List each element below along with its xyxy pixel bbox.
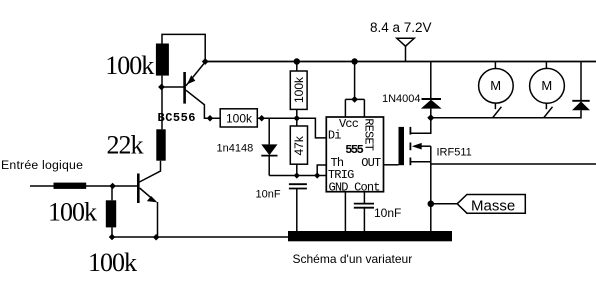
node: emitter/ground junction [153, 234, 160, 241]
wire: bracket stem to bus [354, 62, 356, 100]
wire: motor bottom rail [431, 110, 581, 118]
resistor R7 100k vertical box [296, 62, 298, 72]
capacitor C1 10nF [289, 183, 307, 185]
wire: source line to right edge [431, 163, 596, 165]
svg-text:M: M [490, 78, 501, 93]
svg-text:Di: Di [328, 129, 341, 143]
node: Masse junction [428, 201, 435, 208]
svg-text:IRF511: IRF511 [437, 147, 472, 159]
svg-text:47k: 47k [292, 135, 306, 155]
svg-text:Schéma d'un variateur: Schéma d'un variateur [293, 252, 413, 266]
wire: to Masse flag [431, 203, 457, 205]
ground bus bar [288, 231, 452, 241]
wire: R1 top loop to emitter node [162, 34, 205, 61]
diode D3 (right flyback) [580, 62, 582, 101]
svg-text:BC556: BC556 [158, 111, 197, 125]
Q3 drain stub [410, 118, 430, 133]
connector slash M2 [544, 107, 553, 118]
svg-text:OUT: OUT [361, 156, 381, 170]
svg-text:100k: 100k [292, 76, 306, 103]
wire: TRIG node row [269, 175, 327, 177]
node: Th jog junction [314, 172, 320, 178]
svg-text:100k: 100k [226, 112, 253, 126]
wire: ground rail to bar [112, 236, 288, 238]
wire: 22k bottom to Q2 collector [139, 161, 160, 182]
resistor R5 100k box [220, 109, 257, 127]
node: bus / Vcc stem [351, 58, 357, 64]
node: ground rail left [109, 234, 116, 241]
wire: Cont pin [363, 192, 365, 204]
node: bus / R7 top [294, 58, 300, 64]
motor M2 [530, 68, 565, 103]
connector slash M1 [493, 107, 502, 118]
wire: Di pin [297, 118, 327, 138]
svg-text:100k: 100k [88, 248, 137, 277]
wire: +V bus [205, 61, 596, 63]
svg-text:Entrée logique: Entrée logique [1, 158, 83, 172]
wire: logic input [30, 185, 137, 187]
node: 47k bottom junction [294, 172, 300, 178]
capacitor C2 10nF [354, 203, 374, 205]
svg-text:555: 555 [345, 143, 363, 157]
svg-text:10nF: 10nF [374, 206, 401, 220]
node: Q2 base junction [109, 183, 116, 190]
node: Q1 base junction [158, 84, 165, 91]
svg-text:RESET: RESET [362, 118, 376, 151]
svg-text:100k: 100k [105, 51, 154, 80]
node: R5 right junction [258, 115, 265, 122]
node: bracket junction [351, 96, 358, 103]
svg-text:M: M [541, 78, 552, 93]
wire: Th pin jog [317, 165, 327, 176]
transistor Q1 emitter (to bus) with arrow to base [186, 62, 205, 86]
transistor Q1 collector [186, 90, 220, 118]
node: drain junction [427, 114, 434, 121]
Q3 body arrow [412, 143, 422, 150]
transistor Q2 base bar [137, 174, 140, 204]
resistor R3 100k (filled, horizontal) [54, 183, 87, 189]
wire: Vcc pin [344, 99, 346, 117]
Q3 channel segments [409, 127, 411, 135]
transistor Q1 BC556 base bar [183, 72, 186, 104]
wire: source/ground vertical [430, 146, 432, 231]
transistor Q2 emitter with arrow [140, 188, 154, 200]
resistor R2 22k (filled) [156, 129, 165, 160]
svg-text:1N4004: 1N4004 [382, 93, 421, 105]
wire: OUT pin to gate [384, 164, 399, 166]
svg-text:10nF: 10nF [256, 189, 281, 201]
wire: base of Q1 [162, 86, 184, 88]
resistor R1 100k (filled) [156, 44, 169, 76]
svg-text:22k: 22k [107, 131, 144, 160]
svg-text:Masse: Masse [471, 198, 515, 215]
svg-text:100k: 100k [48, 197, 97, 226]
wire: RESET pin [363, 99, 365, 117]
svg-text:Vcc: Vcc [339, 117, 359, 131]
resistor R4 100k (filled, vertical) [111, 186, 113, 200]
resistor R6 47k box [296, 118, 298, 126]
diode D2 1N4004 [430, 62, 432, 100]
power symbol 8.4 a 7.2V [397, 38, 414, 46]
net flag Masse [457, 195, 525, 214]
motor M1 [479, 69, 514, 104]
svg-text:8.4 a 7.2V: 8.4 a 7.2V [370, 20, 432, 35]
svg-text:1n4148: 1n4148 [217, 143, 254, 155]
diode D1 1n4148 [268, 118, 270, 144]
Q3 source stub [410, 161, 430, 163]
wire: Vcc/RESET bracket [345, 98, 364, 100]
node: collector / R5 left [207, 115, 214, 122]
wire: R1 bottom to base node to 22k [161, 76, 163, 130]
IC U1 555 box [326, 117, 383, 192]
node: 47k top junction [294, 115, 301, 122]
wire: GND pin [344, 192, 346, 231]
svg-text:GND Cont: GND Cont [329, 181, 380, 195]
node: emitter/bus junction [202, 58, 209, 65]
transistor Q3 IRF511 gate plate [399, 127, 405, 165]
wire: R5 right to node [257, 117, 297, 119]
